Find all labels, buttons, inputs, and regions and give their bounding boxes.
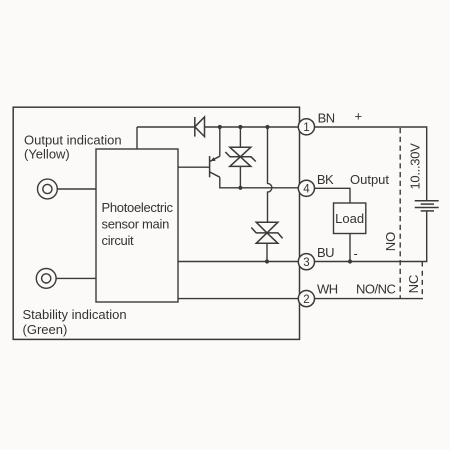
svg-text:10...30V: 10...30V: [408, 143, 423, 190]
wire: emitter riser to BN rail: [219, 127, 221, 156]
dashed selector line NC: [421, 262, 423, 299]
svg-text:3: 3: [303, 257, 309, 269]
svg-text:BN: BN: [318, 110, 335, 125]
wire LED2 to main circuit: [56, 277, 96, 279]
main circuit block U1: [96, 149, 178, 302]
junction dot: zener ZD1 on BN rail: [238, 125, 242, 129]
wire: ZD2 bottom lead to BU line: [266, 243, 268, 261]
battery BT1 10...30V: [415, 201, 439, 211]
wire: BK line to terminal 4: [240, 187, 306, 189]
junction dot: load on BU line: [348, 259, 352, 263]
svg-text:Output indication: Output indication: [24, 133, 122, 148]
load resistor block: [334, 203, 366, 234]
wire LED1 to main circuit: [57, 188, 96, 190]
svg-text:2: 2: [303, 294, 309, 306]
terminal 3 (BU): [298, 254, 314, 270]
LED indicator LED1: output indication (yellow): [38, 179, 58, 199]
zener diode ZD1 (bidirectional surge absorber across BN-BK): [225, 147, 255, 166]
zener diode ZD2 (bidirectional surge absorber across BN-BU): [251, 222, 282, 243]
svg-text:BU: BU: [317, 245, 334, 260]
svg-text:Photoelectric: Photoelectric: [102, 200, 174, 215]
wire: WH line right of terminal 2: [307, 298, 423, 300]
dashed selector line NO: [399, 128, 401, 299]
svg-text:NO/NC: NO/NC: [356, 282, 396, 297]
junction dot: ZD2 branch on BN rail: [265, 125, 269, 129]
svg-text:Output: Output: [350, 172, 389, 187]
junction dot: emitter riser on BN rail: [218, 125, 222, 129]
wire: BN rail left of diode: [137, 126, 195, 128]
wire: ZD1 bottom lead to BK line: [239, 166, 241, 187]
label: Output indication (Yellow): [24, 133, 122, 162]
svg-text:Stability indication: Stability indication: [23, 307, 127, 322]
svg-text:circuit: circuit: [102, 233, 135, 248]
transistor Q1 emitter arrow: [211, 157, 216, 161]
svg-text:(Yellow): (Yellow): [24, 146, 70, 161]
svg-text:Load: Load: [335, 211, 364, 226]
svg-text:(Green): (Green): [23, 322, 68, 337]
junction dot: ZD1 on BK line: [238, 186, 242, 190]
wire: WH line from main circuit to terminal 2: [178, 298, 306, 300]
svg-text:+: +: [355, 108, 363, 123]
svg-text:1: 1: [303, 122, 309, 134]
junction dot: ZD2 on BU line: [265, 259, 269, 263]
wire: ZD2 branch from BN rail with hop over BK line: [268, 127, 272, 222]
terminal 4 (BK): [298, 180, 314, 196]
svg-text:WH: WH: [317, 282, 338, 297]
outer sensor enclosure box: [13, 107, 299, 339]
diode D1 reverse-polarity protection (cathode left): [195, 117, 205, 137]
label: Stability indication (Green): [23, 307, 127, 337]
wire: ZD1 top lead: [239, 127, 241, 147]
svg-text:BK: BK: [317, 172, 334, 187]
wire: BN from terminal 1 to supply +: [307, 127, 427, 201]
wire: base of Q1 to main circuit: [178, 166, 210, 168]
label: Photoelectric sensor main circuit: [102, 200, 174, 248]
terminal 2 (WH): [298, 291, 314, 307]
wire: load to BU line: [349, 234, 351, 262]
svg-text:NO: NO: [383, 232, 398, 252]
svg-text:4: 4: [303, 184, 310, 196]
wire: BU line from main circuit to terminal 3: [178, 261, 306, 263]
wire: battery negative to BU line: [313, 211, 427, 262]
LED indicator LED2: stability indication (green): [36, 269, 56, 289]
svg-text:sensor main: sensor main: [102, 216, 170, 231]
wire: main circuit top to BN rail: [136, 127, 138, 149]
svg-text:-: -: [354, 246, 358, 261]
svg-text:NC: NC: [406, 275, 421, 294]
wire: BK output from terminal 4 to load: [307, 188, 350, 203]
wire: BN rail from diode to terminal 1: [205, 126, 307, 128]
terminal 1 (BN): [298, 119, 314, 135]
wire: collector of Q1 down to BK line: [220, 177, 241, 188]
transistor Q1 (PNP output transistor): [210, 156, 220, 177]
